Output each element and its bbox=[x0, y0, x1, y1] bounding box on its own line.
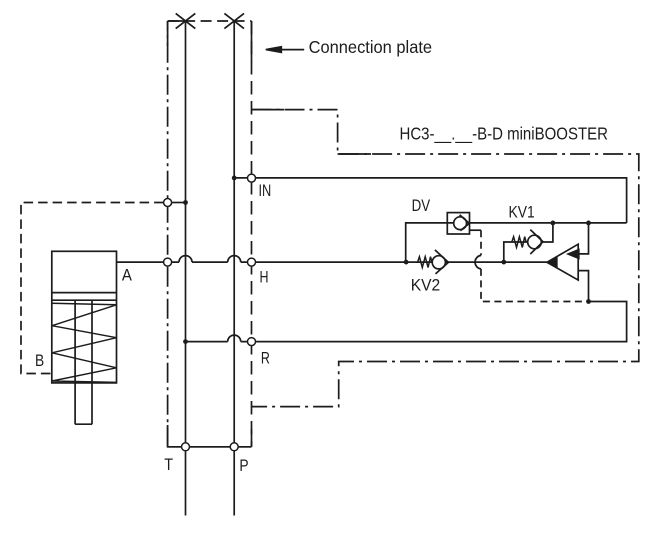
svg-text:P: P bbox=[239, 456, 248, 475]
svg-text:A: A bbox=[122, 265, 133, 284]
svg-text:H: H bbox=[260, 267, 269, 286]
svg-text:T: T bbox=[164, 455, 173, 474]
svg-text:IN: IN bbox=[259, 181, 272, 200]
svg-text:HC3-__.__-B-D miniBOOSTER: HC3-__.__-B-D miniBOOSTER bbox=[400, 124, 609, 145]
svg-text:R: R bbox=[261, 349, 270, 368]
svg-text:KV2: KV2 bbox=[411, 276, 441, 295]
svg-text:B: B bbox=[35, 351, 44, 370]
svg-text:DV: DV bbox=[412, 196, 431, 215]
svg-text:KV1: KV1 bbox=[509, 203, 535, 222]
svg-text:Connection plate: Connection plate bbox=[309, 37, 433, 57]
